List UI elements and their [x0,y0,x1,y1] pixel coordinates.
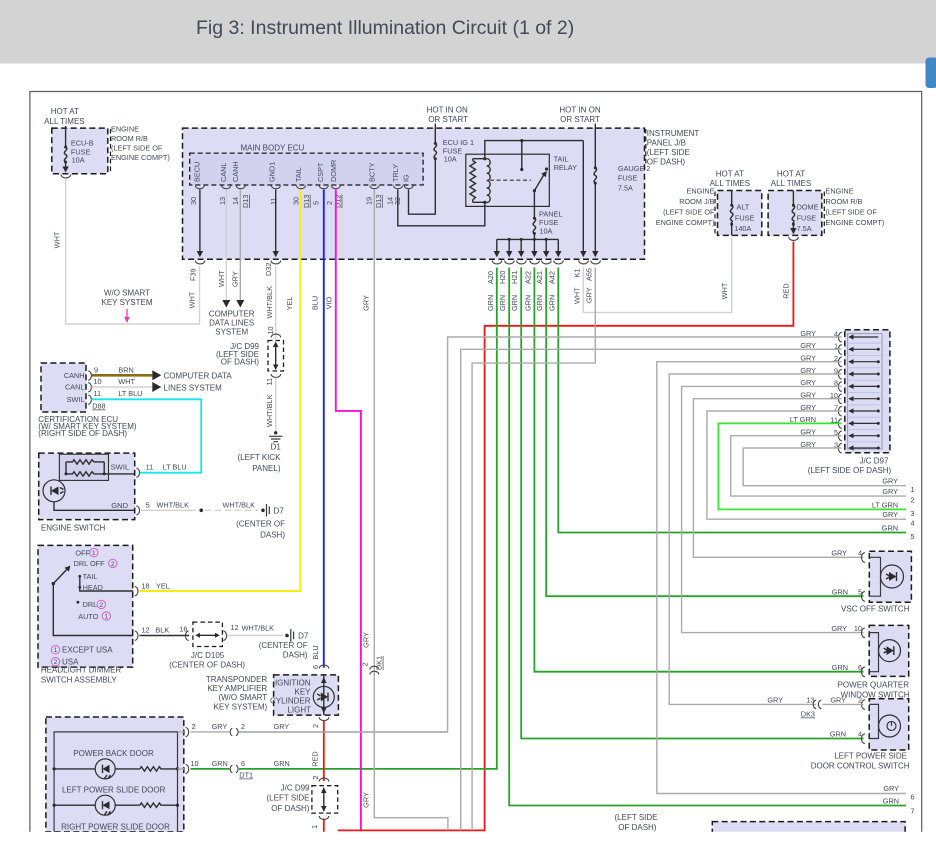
svg-text:VSC OFF SWITCH: VSC OFF SWITCH [841,604,910,613]
svg-text:GRY: GRY [831,624,847,633]
svg-text:ENGINE SWITCH: ENGINE SWITCH [41,524,106,533]
svg-text:DK3: DK3 [801,710,815,719]
svg-text:(RIGHT SIDE OF DASH): (RIGHT SIDE OF DASH) [38,429,127,438]
svg-text:OFF: OFF [75,548,90,557]
resistor inside relay [470,161,476,200]
svg-text:7.5A: 7.5A [797,224,812,233]
svg-text:2: 2 [100,602,104,609]
svg-text:DOME: DOME [797,203,819,212]
svg-text:D88: D88 [92,402,105,411]
svg-text:(LEFT SIDE OF: (LEFT SIDE OF [111,144,163,153]
label bracket ENGINE ROOM J/B [714,192,716,235]
svg-text:SWIL: SWIL [111,462,130,471]
svg-text:4: 4 [858,549,862,558]
circled 1/2 markers [51,548,117,666]
svg-text:10: 10 [191,759,199,768]
fuse ECU IG 1 10A [434,124,436,143]
svg-text:GAUGE 2: GAUGE 2 [618,164,650,173]
svg-text:DASH): DASH) [260,531,285,540]
svg-text:7: 7 [911,807,915,816]
connector J/C D99 (bottom) [319,778,329,781]
svg-text:GRN: GRN [510,295,519,311]
svg-text:HOT IN ON: HOT IN ON [559,106,600,115]
svg-text:GRY: GRY [882,477,898,486]
svg-text:COMPUTER: COMPUTER [209,310,255,319]
svg-text:WHT: WHT [720,282,729,299]
wire RED from DOME fuse [338,242,794,831]
svg-text:F39: F39 [189,268,198,281]
svg-text:A21: A21 [535,271,544,284]
svg-text:BECU: BECU [193,162,202,182]
svg-text:GRY: GRY [883,784,899,793]
svg-text:13: 13 [218,197,227,205]
svg-text:WHT: WHT [118,377,135,386]
svg-text:3: 3 [911,509,915,518]
svg-text:D13: D13 [302,195,311,208]
svg-text:J/C D105: J/C D105 [191,651,225,660]
svg-text:(CENTER OF DASH): (CENTER OF DASH) [169,660,245,669]
svg-text:A55: A55 [584,268,593,281]
svg-text:BCTY: BCTY [367,162,376,182]
svg-text:4: 4 [911,519,915,528]
switch arm [52,582,55,585]
svg-text:GRY: GRY [882,487,898,496]
svg-text:VIO: VIO [324,296,333,309]
svg-text:DASH): DASH) [283,651,308,660]
svg-text:RED: RED [311,751,320,766]
connector J/C D105 [185,631,188,640]
svg-text:OR START: OR START [428,115,468,124]
svg-text:DK1: DK1 [375,656,384,670]
svg-text:ALT: ALT [737,203,750,212]
wire CANL WHT drop [225,190,227,302]
svg-text:GRY: GRY [212,722,228,731]
box bottom J/B (clipped) [712,822,905,848]
switch HEADLIGHT DIMMER SWITCH ASSEMBLY [38,545,133,667]
svg-text:BRN: BRN [118,365,133,374]
switch POWER QUARTER WINDOW SWITCH [869,625,909,676]
svg-text:GRN: GRN [212,759,228,768]
svg-text:INSTRUMENT: INSTRUMENT [647,129,700,138]
svg-text:ECU-B: ECU-B [71,138,94,147]
fuse PANEL FUSE 10A [533,191,535,218]
svg-text:ALL TIMES: ALL TIMES [44,117,84,126]
svg-text:DATA LINES: DATA LINES [209,319,254,328]
wire GRY D97 pin7 to exit 4 [707,411,906,519]
svg-text:H21: H21 [510,271,519,284]
svg-text:10: 10 [94,377,102,386]
svg-text:LINES SYSTEM: LINES SYSTEM [164,383,223,392]
svg-text:(LEFT SIDE: (LEFT SIDE [615,813,658,822]
svg-text:KEY: KEY [294,687,311,696]
svg-text:OF DASH): OF DASH) [618,823,657,832]
wire GRY D97 pin4 to power back door [239,337,842,732]
svg-text:(CENTER OF: (CENTER OF [259,641,308,650]
connector J/C D97 box [845,330,890,453]
wire GRY D97 pin2 to exit 6 [657,362,906,794]
svg-text:TAIL: TAIL [554,155,569,164]
svg-text:10: 10 [266,326,275,334]
svg-text:TRANSPONDER: TRANSPONDER [206,675,268,684]
J/C D97 pin connector arcs [838,332,841,453]
svg-text:J/C D97: J/C D97 [860,457,889,466]
svg-text:A20: A20 [486,271,495,284]
svg-text:4: 4 [858,730,862,739]
svg-text:GRN: GRN [535,295,544,311]
svg-text:GRN: GRN [882,524,898,533]
svg-text:1: 1 [105,614,109,621]
svg-text:ROOM R/B: ROOM R/B [826,197,863,206]
svg-text:HOT AT: HOT AT [716,170,744,179]
svg-text:TRLY: TRLY [391,164,400,182]
wire GRY pin2 row [178,731,185,733]
wire BLU CSPT to ignition key cylinder light [323,190,325,668]
svg-text:EXCEPT USA: EXCEPT USA [62,646,113,655]
svg-text:FUSE: FUSE [618,174,638,183]
exit labels 1-5 [872,477,915,816]
header bar [0,0,936,64]
relay switch [545,167,548,170]
svg-text:GRN: GRN [547,295,556,311]
wire GRY D97 pin1 down [461,349,842,830]
switch LEFT POWER SIDE DOOR CONTROL SWITCH [869,699,909,750]
svg-text:2: 2 [311,724,320,728]
svg-text:GRY: GRY [362,295,371,311]
wire BECU black drop to F39 [199,190,201,252]
svg-text:ALL TIMES: ALL TIMES [710,179,750,188]
wire GRN H20 to exit 7 [509,268,906,806]
svg-text:13: 13 [806,696,814,705]
svg-text:WHT: WHT [188,291,197,308]
svg-text:WHT/BLK: WHT/BLK [242,624,275,633]
svg-text:GRY: GRY [584,287,593,303]
wire GRY A55 down-left [472,268,595,831]
label bracket ECU-B [110,129,112,173]
svg-text:LT BLU: LT BLU [118,389,142,398]
wire K1 WHT drop [582,141,584,252]
wire GRY D97 pin9 to DK3 [669,374,841,704]
svg-text:OF DASH): OF DASH) [647,158,686,167]
wire GRY BCTY down through DK1 [374,190,448,831]
fuse ECU-B element [65,126,67,147]
svg-text:COMPUTER DATA: COMPUTER DATA [164,371,233,380]
wire pin12 BLK to J/C D105 [52,582,55,585]
svg-text:CANH: CANH [64,371,85,380]
svg-text:GRN: GRN [274,759,290,768]
svg-text:K1: K1 [572,269,581,278]
box POWER BACK DOOR assembly [46,717,184,832]
svg-text:D7: D7 [298,632,309,641]
wire pin18 YEL [80,587,133,591]
ecu CERTIFICATION ECU [41,363,86,412]
svg-text:BLU: BLU [311,296,320,310]
wire WHT from ECU-B fuse to F39 [66,179,200,324]
connector DK3 [813,700,821,708]
svg-text:D32: D32 [264,263,273,276]
wire RED ignition to J/C D99 [323,721,325,782]
relay TAIL RELAY [466,154,550,206]
wire TRLY to relay coil [398,190,485,226]
svg-text:(LEFT KICK: (LEFT KICK [238,453,282,462]
svg-text:YEL: YEL [156,582,170,591]
svg-text:ENGINE COMPT): ENGINE COMPT) [111,153,170,162]
wire WHT K1 to ALT fuse [583,236,731,312]
svg-text:2: 2 [361,662,370,666]
svg-text:GRY: GRY [231,271,240,287]
wire GRN A22 to power quarter window switch [534,268,863,672]
svg-text:HOT AT: HOT AT [51,107,79,116]
svg-text:1: 1 [310,825,319,829]
svg-text:RELAY: RELAY [554,163,578,172]
svg-text:KEY SYSTEM): KEY SYSTEM) [214,702,268,711]
svg-text:IGNITION: IGNITION [275,678,311,687]
svg-text:10A: 10A [72,156,85,165]
svg-text:GRN: GRN [523,295,532,311]
wire GRY D97 pin5 to exit 2 [731,436,906,496]
svg-text:Fig 3: Instrument Illumination: Fig 3: Instrument Illumination Circuit (… [196,17,574,39]
pin arcs under J/B [492,261,600,264]
svg-text:PANEL): PANEL) [252,464,281,473]
svg-text:10: 10 [854,624,862,633]
svg-text:TAIL: TAIL [294,167,303,182]
svg-text:SYSTEM: SYSTEM [215,328,248,337]
svg-text:(LEFT SIDE OF DASH): (LEFT SIDE OF DASH) [808,466,892,475]
svg-text:GRN: GRN [830,730,846,739]
svg-text:5: 5 [146,500,150,509]
svg-text:18: 18 [142,582,150,591]
svg-text:GND1: GND1 [267,162,276,182]
svg-text:TAIL: TAIL [83,572,98,581]
svg-text:GRY: GRY [362,632,371,648]
svg-text:HOT IN ON: HOT IN ON [427,106,468,115]
wire VIO DOMR down [336,190,361,830]
bottom clip [0,832,936,848]
svg-text:W/O SMART: W/O SMART [104,289,150,298]
svg-text:FUSE: FUSE [735,214,755,223]
wire GRY D97 pin3 to exit 1 [743,448,906,486]
svg-text:ALL TIMES: ALL TIMES [771,179,811,188]
svg-text:6: 6 [241,759,245,768]
ground D1 [274,431,277,434]
svg-text:WHT: WHT [572,287,581,304]
wire WHT/BLK to ground D1 [275,378,277,432]
svg-text:2: 2 [111,561,115,568]
svg-text:RED: RED [782,283,791,298]
svg-text:WHT: WHT [217,270,226,287]
connector J/C D99 (left side of dash) [271,334,281,337]
svg-text:ROOM J/B: ROOM J/B [679,197,714,206]
svg-text:1: 1 [911,485,915,494]
svg-text:5: 5 [911,532,915,541]
svg-text:2: 2 [911,496,915,505]
svg-text:9: 9 [94,365,98,374]
svg-text:POWER BACK DOOR: POWER BACK DOOR [73,749,154,758]
svg-text:(LEFT SIDE: (LEFT SIDE [267,794,310,803]
svg-text:GRN: GRN [486,295,495,311]
svg-text:7.5A: 7.5A [618,183,633,192]
svg-text:10A: 10A [539,227,552,236]
svg-text:GRY: GRY [882,510,898,519]
svg-text:D13: D13 [241,195,250,208]
svg-text:GRN: GRN [883,797,899,806]
svg-text:A42: A42 [547,271,556,284]
svg-text:140A: 140A [734,224,751,233]
svg-text:11: 11 [94,389,102,398]
led ENGINE SWITCH lamp [43,480,65,502]
svg-text:GRY: GRY [274,722,290,731]
svg-text:A22: A22 [523,271,532,284]
svg-text:PANEL J/B: PANEL J/B [647,138,686,147]
svg-text:GRN: GRN [832,588,848,597]
wire GRN H21 to door control switch [521,268,863,739]
svg-text:H20: H20 [498,271,507,284]
svg-text:WHT/BLK: WHT/BLK [265,286,274,319]
svg-text:HEADLIGHT DIMMER: HEADLIGHT DIMMER [41,666,122,675]
svg-text:MAIN BODY ECU: MAIN BODY ECU [240,143,304,152]
svg-text:6: 6 [911,793,915,802]
svg-text:DOOR CONTROL SWITCH: DOOR CONTROL SWITCH [811,762,910,771]
blue scrollbar tab [926,58,936,89]
svg-text:GRY: GRY [831,549,847,558]
svg-text:ENGINE: ENGINE [687,187,715,196]
svg-text:(W/O SMART: (W/O SMART [218,693,267,702]
svg-text:CANH: CANH [231,161,240,182]
bus PANEL FUSE output [497,238,559,240]
svg-text:WHT: WHT [53,231,62,248]
wire GRN A21 to VSC off switch [546,268,863,597]
svg-text:DRL OFF: DRL OFF [74,559,105,568]
svg-text:ENGINE COMPT): ENGINE COMPT) [826,218,885,227]
svg-text:GRY: GRY [767,696,783,705]
svg-text:PANEL: PANEL [539,209,562,218]
svg-text:11: 11 [269,197,278,205]
svg-text:YEL: YEL [285,297,294,311]
svg-text:5: 5 [858,588,862,597]
wire YEL TAIL to dimmer [140,190,301,592]
svg-text:OR START: OR START [560,115,600,124]
J/C D97 pin rows [852,337,878,448]
svg-text:30: 30 [292,197,301,205]
switch ENGINE SWITCH [39,453,135,519]
svg-text:DRL: DRL [83,600,98,609]
svg-text:12: 12 [231,623,239,632]
svg-text:1: 1 [54,647,58,654]
svg-text:GRY: GRY [362,792,371,808]
wire LT GRN D97 pin11 to exit 3 [718,423,906,509]
svg-text:OF DASH): OF DASH) [221,358,260,367]
svg-text:DOMR: DOMR [329,160,338,182]
svg-text:IG: IG [402,174,411,182]
svg-text:2: 2 [325,201,334,205]
svg-text:LIGHT: LIGHT [287,706,311,715]
J/C D97 row labels [790,329,838,450]
svg-text:(LEFT SIDE OF: (LEFT SIDE OF [663,208,715,217]
label bracket INSTRUMENT PANEL J/B [645,129,647,166]
svg-text:ENGINE COMPT): ENGINE COMPT) [656,218,715,227]
fuse DOME FUSE 7.5A box [768,191,822,236]
svg-text:CANL: CANL [219,163,228,182]
svg-text:2: 2 [192,722,196,731]
wire CANH GRY drop [239,190,241,302]
svg-text:ROOM R/B: ROOM R/B [111,134,148,143]
wire GRY D97 pin8 to power quarter window switch [682,386,864,632]
svg-text:WHT/BLK: WHT/BLK [265,394,274,427]
svg-text:ENGINE: ENGINE [111,125,139,134]
svg-text:KEY AMPLIFIER: KEY AMPLIFIER [207,684,267,693]
svg-text:KEY SYSTEM: KEY SYSTEM [102,298,153,307]
svg-text:2: 2 [311,775,320,779]
fuse ALT FUSE 140A box [718,191,762,236]
svg-text:WHT/BLK: WHT/BLK [223,500,256,509]
switch VSC OFF SWITCH [869,551,911,602]
svg-text:2: 2 [858,696,862,705]
svg-text:GRN: GRN [498,295,507,311]
svg-text:GND: GND [111,501,128,510]
svg-text:19: 19 [364,197,373,205]
svg-text:LEFT POWER SLIDE DOOR: LEFT POWER SLIDE DOOR [62,785,166,794]
svg-text:WHT/BLK: WHT/BLK [157,500,190,509]
svg-text:GRN: GRN [832,663,848,672]
svg-text:POWER QUARTER: POWER QUARTER [838,680,910,689]
svg-text:HOT AT: HOT AT [777,170,805,179]
op pin header box of MAIN BODY ECU [190,153,423,185]
svg-text:RIGHT POWER SLIDE DOOR: RIGHT POWER SLIDE DOOR [61,822,170,831]
svg-text:CANL: CANL [65,383,84,392]
svg-text:LEFT POWER SIDE: LEFT POWER SIDE [834,751,907,760]
svg-text:AUTO: AUTO [78,612,98,621]
svg-text:2: 2 [241,722,245,731]
svg-text:(CENTER OF: (CENTER OF [236,520,285,529]
svg-text:J/C D99: J/C D99 [281,784,310,793]
svg-text:D7: D7 [274,507,285,516]
wire GRN A42 to exit 5 [558,268,906,533]
wire WHT/BLK from D32 to J/C D99 [275,266,277,339]
fuse GAUGE 2 7.5A [594,124,596,168]
svg-text:CSPT: CSPT [316,162,325,182]
svg-text:BLK: BLK [155,626,169,635]
lamp IGNITION KEY CYLINDER LIGHT [319,665,329,668]
svg-text:DT1: DT1 [239,771,253,780]
svg-text:SWITCH ASSEMBLY: SWITCH ASSEMBLY [41,676,118,685]
svg-text:OF DASH): OF DASH) [271,804,310,813]
wire RED below J/C D99 [323,819,325,833]
fuse ECU-B 10A box [52,128,108,174]
relay top bus [485,141,584,159]
svg-text:SWIL: SWIL [67,395,85,404]
svg-text:11: 11 [146,463,154,472]
svg-text:LT BLU: LT BLU [163,463,187,472]
drops A20 H20 H21 A22 A21 A42 [497,239,559,251]
coil inside relay [487,159,490,203]
svg-text:14: 14 [231,197,240,205]
svg-text:1: 1 [92,550,96,557]
svg-text:6: 6 [858,663,862,672]
svg-text:BLU: BLU [311,645,320,659]
svg-text:(LEFT SIDE OF: (LEFT SIDE OF [826,208,878,217]
connector DK1 [370,666,379,674]
wire GRY D97 pin10 to VSC off switch [693,399,863,558]
svg-text:30: 30 [189,197,198,205]
svg-text:12: 12 [142,626,150,635]
wire GRN A20 to power back door [239,268,497,769]
label bracket ENGINE ROOM R/B right [823,192,825,235]
svg-text:CYLINDER: CYLINDER [270,697,311,706]
ECU main body box (MAIN BODY ECU + INSTRUMENT PANEL J/B) [183,128,645,259]
svg-text:LT GRN: LT GRN [872,500,898,509]
svg-text:11: 11 [265,378,274,386]
svg-text:D1: D1 [271,443,282,452]
svg-text:GRY: GRY [830,696,846,705]
